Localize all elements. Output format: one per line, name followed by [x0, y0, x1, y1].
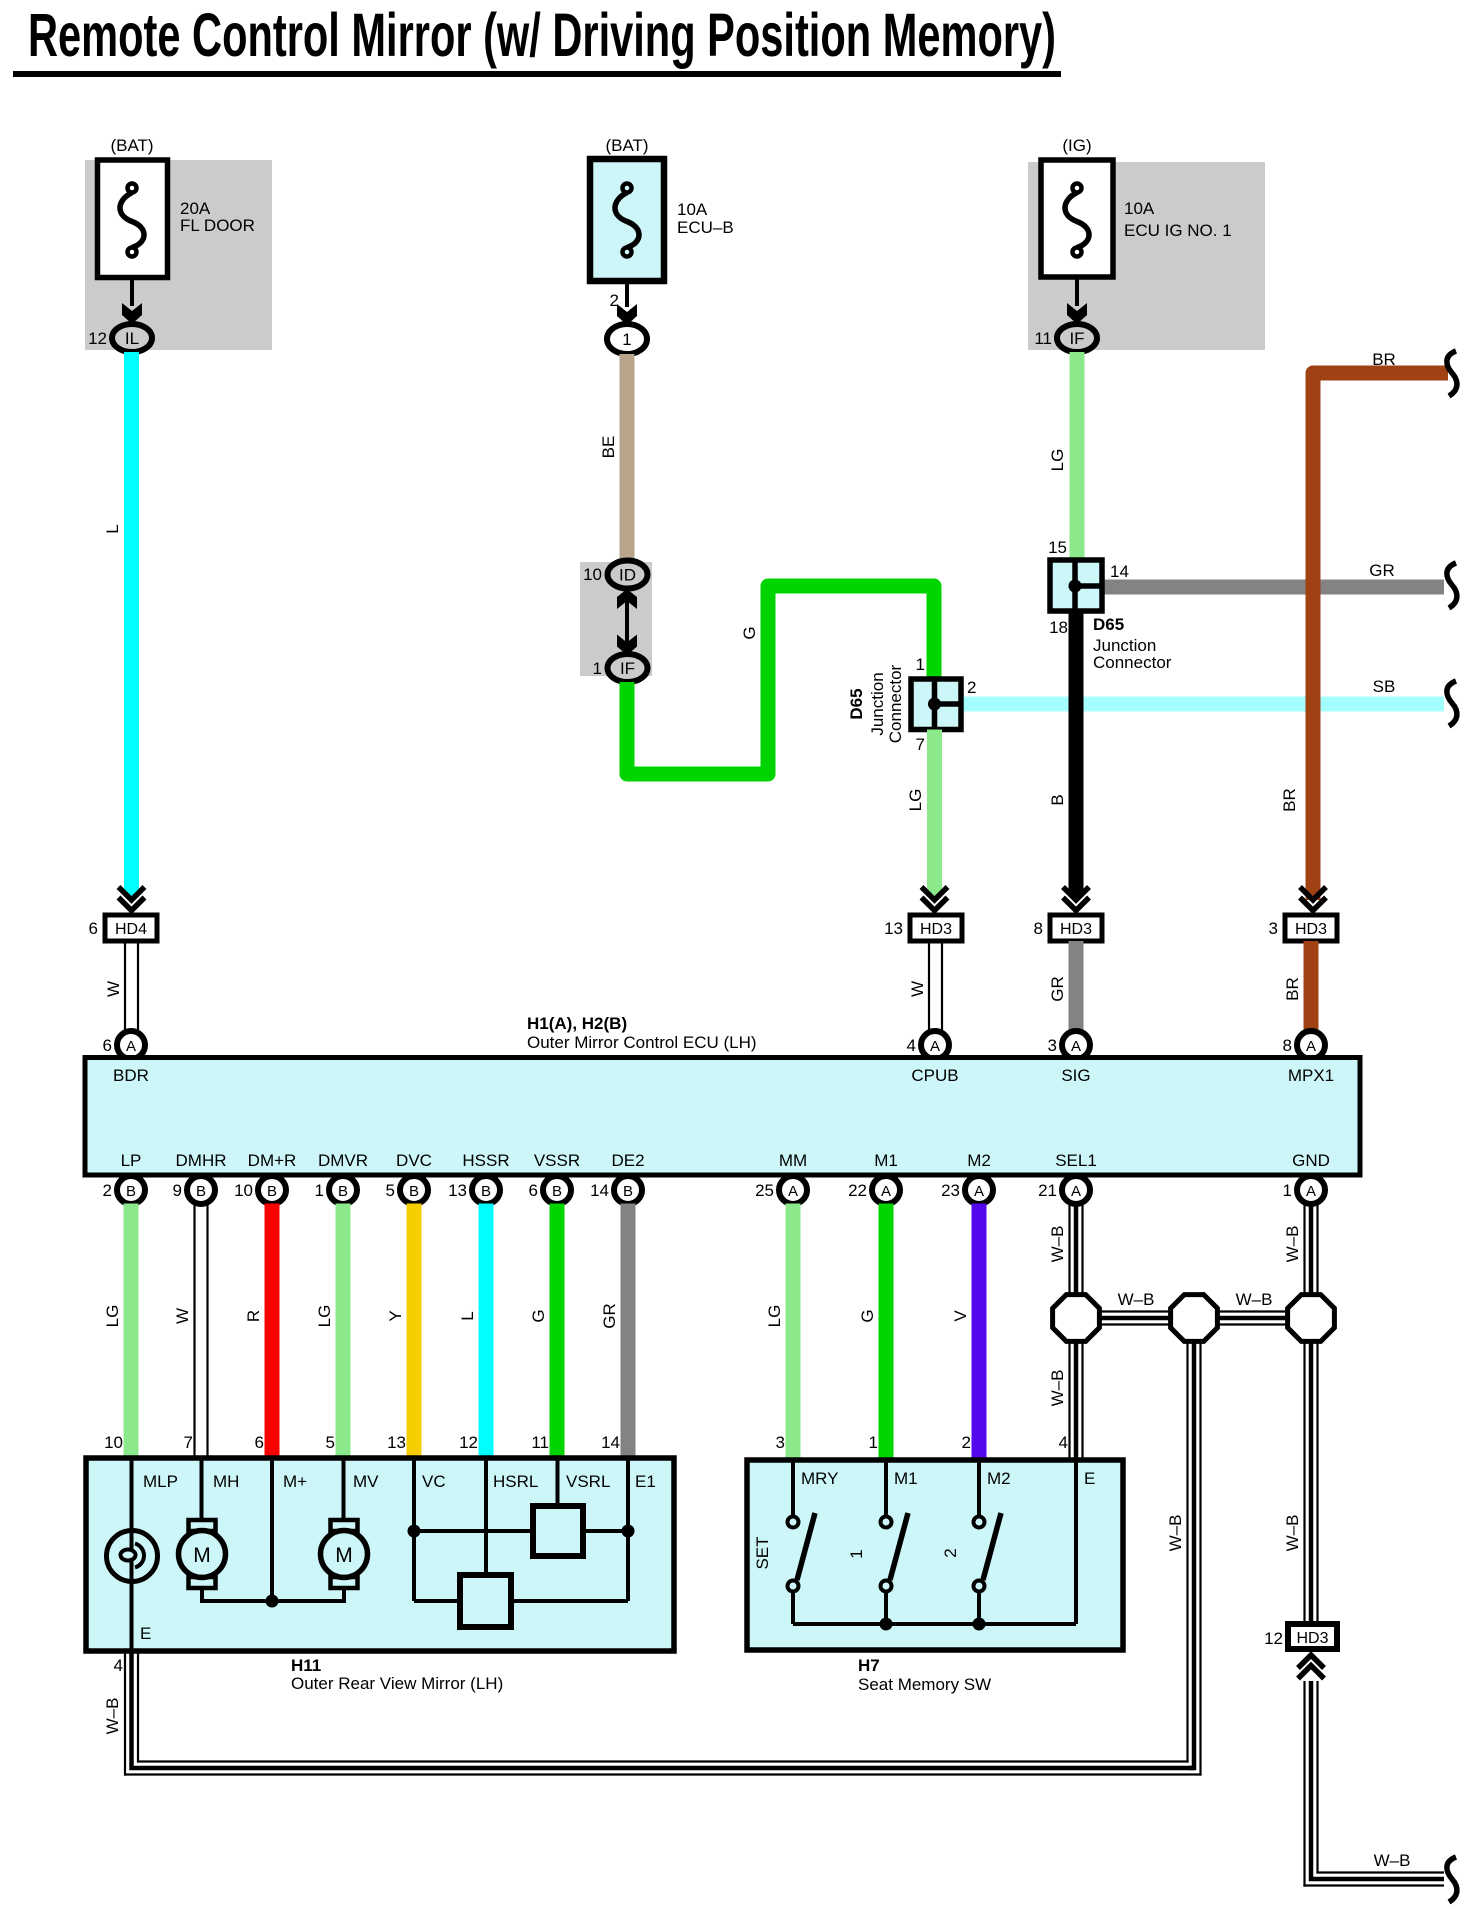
wire VC to resistor2 — [414, 1599, 460, 1603]
svg-text:IF: IF — [1069, 329, 1084, 348]
svg-text:5: 5 — [326, 1433, 335, 1452]
svg-text:FL DOOR: FL DOOR — [180, 216, 255, 235]
svg-text:B: B — [623, 1183, 633, 1200]
wire B from D65 to HD3-8 — [1069, 611, 1084, 894]
H7 pin labels — [801, 1469, 1095, 1488]
svg-text:A: A — [930, 1038, 940, 1055]
wire MH line — [200, 1458, 204, 1520]
fuse 20A FL DOOR — [98, 160, 168, 278]
svg-text:HSRL: HSRL — [493, 1472, 538, 1491]
junction octagon 1 — [1053, 1295, 1100, 1342]
svg-text:Connector: Connector — [1093, 653, 1172, 672]
junction dot M1 — [880, 1618, 893, 1631]
svg-text:SIG: SIG — [1061, 1066, 1090, 1085]
svg-text:MH: MH — [213, 1472, 239, 1491]
connector oval ID — [608, 561, 648, 589]
svg-text:W–B: W–B — [1374, 1851, 1411, 1870]
wire motor2 to bus — [342, 1588, 346, 1601]
svg-text:W: W — [173, 1308, 192, 1324]
svg-text:MPX1: MPX1 — [1288, 1066, 1334, 1085]
svg-text:11: 11 — [1034, 329, 1052, 348]
svg-text:14: 14 — [1110, 562, 1129, 581]
svg-text:SET: SET — [753, 1536, 772, 1569]
svg-text:1: 1 — [869, 1433, 878, 1452]
wire W-B H11 E down (double) — [125, 1651, 138, 1776]
chevron arrow into HD3-8 — [1063, 887, 1089, 911]
svg-text:LG: LG — [906, 789, 925, 812]
svg-text:M2: M2 — [967, 1151, 991, 1170]
svg-text:A: A — [974, 1183, 984, 1200]
pin circle A25 MM — [755, 1176, 807, 1204]
svg-text:25: 25 — [755, 1181, 774, 1200]
svg-text:BR: BR — [1280, 788, 1299, 812]
svg-text:B: B — [552, 1183, 562, 1200]
svg-text:VC: VC — [422, 1472, 446, 1491]
svg-text:8: 8 — [1283, 1036, 1292, 1055]
svg-text:E: E — [140, 1624, 151, 1643]
pin circle A6 — [117, 1031, 145, 1059]
pin circle A1 GND — [1283, 1176, 1325, 1204]
svg-text:13: 13 — [448, 1181, 467, 1200]
svg-text:HD3: HD3 — [920, 921, 952, 938]
svg-text:DE2: DE2 — [611, 1151, 644, 1170]
svg-text:HSSR: HSSR — [462, 1151, 509, 1170]
svg-text:14: 14 — [590, 1181, 609, 1200]
connector HD3 (12) — [1288, 1624, 1337, 1649]
wire fuse1 to IL — [130, 277, 134, 306]
svg-text:8: 8 — [1034, 919, 1043, 938]
svg-text:1: 1 — [847, 1549, 866, 1558]
svg-text:11: 11 — [531, 1433, 549, 1452]
wire W-B SEL1 down to H7 E (double) — [1070, 1204, 1083, 1461]
svg-text:L: L — [103, 524, 122, 533]
svg-text:2: 2 — [103, 1181, 112, 1200]
svg-text:10A: 10A — [1124, 199, 1155, 218]
wire MV line — [342, 1458, 346, 1520]
svg-text:R: R — [244, 1310, 263, 1322]
svg-text:HD3: HD3 — [1295, 921, 1327, 938]
chevron arrow into HD3-3 — [1300, 887, 1326, 911]
junction dot M+ — [266, 1595, 279, 1608]
chevron arrow into HD4 — [119, 887, 145, 911]
connector oval IF — [608, 654, 648, 682]
svg-text:6: 6 — [103, 1036, 112, 1055]
svg-text:4: 4 — [1059, 1433, 1068, 1452]
svg-text:3: 3 — [1269, 919, 1278, 938]
junction dot E1 — [622, 1525, 635, 1538]
arrow into oval 1 — [617, 304, 637, 325]
svg-text:10: 10 — [104, 1433, 123, 1452]
bottom node labels — [121, 1151, 1330, 1170]
wire SB — [961, 697, 1444, 712]
svg-text:A: A — [1306, 1183, 1316, 1200]
wire resistor1 to E1 — [583, 1529, 628, 1533]
wire LG MM to H7 — [786, 1204, 801, 1460]
wire W-B HD3-12 to bottom right (double) — [1303, 1681, 1444, 1887]
pin circle B13 HSSR — [448, 1176, 500, 1204]
svg-text:7: 7 — [184, 1433, 193, 1452]
resistor VSRL (square) — [533, 1506, 583, 1556]
svg-text:BR: BR — [1283, 977, 1302, 1001]
svg-text:DMHR: DMHR — [176, 1151, 227, 1170]
svg-text:B: B — [267, 1183, 277, 1200]
svg-text:6: 6 — [255, 1433, 264, 1452]
svg-text:18: 18 — [1049, 618, 1068, 637]
svg-text:4: 4 — [114, 1656, 123, 1675]
svg-text:(BAT): (BAT) — [605, 136, 648, 155]
wire G (green path) — [627, 586, 934, 774]
svg-text:M1: M1 — [874, 1151, 898, 1170]
wire motor1 to bus — [200, 1588, 204, 1601]
svg-text:Outer Rear View Mirror (LH): Outer Rear View Mirror (LH) — [291, 1674, 503, 1693]
svg-text:GND: GND — [1292, 1151, 1330, 1170]
svg-text:15: 15 — [1048, 538, 1067, 557]
svg-text:12: 12 — [1264, 1629, 1283, 1648]
H11 box — [86, 1458, 674, 1651]
svg-text:BR: BR — [1372, 350, 1396, 369]
svg-text:12: 12 — [88, 329, 107, 348]
svg-text:6: 6 — [529, 1181, 538, 1200]
svg-text:M: M — [335, 1544, 353, 1567]
pin circle A8 — [1297, 1031, 1325, 1059]
svg-text:E: E — [1084, 1469, 1095, 1488]
title underline — [13, 71, 1061, 77]
svg-text:22: 22 — [848, 1181, 867, 1200]
chevron arrow up below HD3-12 — [1298, 1655, 1324, 1679]
connector HD3 (3) — [1285, 915, 1337, 941]
wire HSRL line — [484, 1458, 488, 1575]
svg-text:10A: 10A — [677, 200, 708, 219]
svg-text:M+: M+ — [283, 1472, 307, 1491]
svg-text:M2: M2 — [987, 1469, 1011, 1488]
svg-text:ECU–B: ECU–B — [677, 218, 734, 237]
svg-text:HD3: HD3 — [1296, 1630, 1328, 1647]
wire M+ line — [270, 1458, 274, 1601]
svg-text:E1: E1 — [635, 1472, 656, 1491]
svg-text:14: 14 — [601, 1433, 620, 1452]
svg-text:Y: Y — [386, 1310, 405, 1321]
svg-text:6: 6 — [89, 919, 98, 938]
svg-text:W–B: W–B — [103, 1698, 122, 1735]
connector break squiggle GR — [1447, 563, 1457, 608]
pin circle A3 — [1062, 1031, 1090, 1059]
wire fuse2 down — [625, 281, 629, 307]
connector break squiggle W-B — [1447, 1857, 1457, 1902]
junction octagon 2 — [1171, 1295, 1218, 1342]
connector HD3 (8) — [1050, 915, 1102, 941]
svg-text:DMVR: DMVR — [318, 1151, 368, 1170]
fuse 10A ECU-B — [590, 159, 664, 281]
svg-text:2: 2 — [962, 1433, 971, 1452]
svg-text:MLP: MLP — [143, 1472, 178, 1491]
svg-text:(BAT): (BAT) — [110, 136, 153, 155]
svg-text:G: G — [529, 1309, 548, 1322]
svg-text:IL: IL — [125, 329, 139, 348]
svg-text:B: B — [1048, 794, 1067, 805]
switch 2 — [974, 1460, 1002, 1624]
svg-text:1: 1 — [1283, 1181, 1292, 1200]
svg-text:2: 2 — [967, 678, 976, 697]
wire LG LP to H11 — [124, 1204, 139, 1459]
junction octagon 3 — [1288, 1295, 1335, 1342]
svg-text:W–B: W–B — [1236, 1290, 1273, 1309]
svg-text:MRY: MRY — [801, 1469, 838, 1488]
svg-text:GR: GR — [1048, 976, 1067, 1002]
svg-text:GR: GR — [600, 1303, 619, 1329]
svg-text:B: B — [338, 1183, 348, 1200]
chevron arrow into HD3-13 — [922, 887, 948, 911]
wire L HSSR to H11 — [479, 1204, 494, 1459]
svg-text:B: B — [409, 1183, 419, 1200]
wire E1 line — [626, 1458, 630, 1601]
svg-text:VSSR: VSSR — [534, 1151, 580, 1170]
arrow into IL — [122, 303, 142, 324]
wire R DM+R to H11 — [265, 1204, 280, 1459]
svg-text:L: L — [458, 1311, 477, 1320]
resistor HSRL (square) — [460, 1575, 511, 1627]
svg-text:IF: IF — [620, 659, 635, 678]
double arrow ID-IF — [617, 589, 637, 655]
wire VC-resistor1 horizontal — [414, 1529, 533, 1533]
label D65 Junction Connector (rotated) — [847, 664, 905, 743]
pin circle B9 DMHR — [173, 1176, 215, 1204]
junction connector D65 (left) — [911, 679, 961, 730]
svg-text:1: 1 — [916, 655, 925, 674]
wire LG DMVR to H11 — [336, 1204, 351, 1459]
svg-text:W: W — [908, 981, 927, 997]
svg-text:V: V — [951, 1310, 970, 1322]
svg-text:3: 3 — [776, 1433, 785, 1452]
wire VC line — [412, 1458, 416, 1601]
wire V M2 to H7 — [972, 1204, 987, 1460]
wire W-B bottom run (double) — [124, 1762, 1202, 1775]
connector oval 1 — [607, 324, 647, 354]
svg-text:SB: SB — [1373, 677, 1396, 696]
svg-text:HD3: HD3 — [1060, 921, 1092, 938]
connector HD3 (13) — [910, 915, 962, 941]
H11 pin labels — [143, 1472, 656, 1491]
pin circle A4 — [921, 1031, 949, 1059]
connector break squiggle BR — [1447, 351, 1457, 396]
wire GR to right edge — [1102, 580, 1444, 595]
wire resistor2 to E1 — [511, 1599, 628, 1603]
svg-text:LG: LG — [1048, 449, 1067, 472]
svg-text:A: A — [1071, 1038, 1081, 1055]
wire fuse3 down — [1075, 277, 1079, 306]
svg-text:Outer Mirror Control ECU (LH): Outer Mirror Control ECU (LH) — [527, 1033, 757, 1052]
wire W (double) HD4 to ECU — [125, 941, 138, 1034]
wire G VSSR to H11 — [550, 1204, 565, 1459]
fuse FL DOOR backdrop — [85, 160, 272, 350]
svg-text:W–B: W–B — [1048, 1226, 1067, 1263]
H7 box — [747, 1460, 1123, 1650]
svg-text:Remote Control Mirror (w/ Driv: Remote Control Mirror (w/ Driving Positi… — [28, 1, 1056, 69]
svg-text:HD4: HD4 — [115, 921, 147, 938]
pin circle B5 DVC — [386, 1176, 428, 1204]
fuse ECU IG NO.1 backdrop — [1028, 162, 1265, 350]
svg-text:1: 1 — [593, 659, 602, 678]
svg-text:W–B: W–B — [1118, 1290, 1155, 1309]
svg-text:B: B — [481, 1183, 491, 1200]
wire G M1 to H7 — [879, 1204, 894, 1460]
connector break squiggle SB — [1447, 681, 1457, 726]
wire BR top right — [1313, 373, 1448, 900]
svg-text:MV: MV — [353, 1472, 379, 1491]
wire LG from D65-7 to HD3-13 — [927, 730, 942, 895]
svg-text:VSRL: VSRL — [566, 1472, 610, 1491]
svg-text:A: A — [1306, 1038, 1316, 1055]
svg-text:A: A — [1071, 1183, 1081, 1200]
switch 1 — [881, 1460, 909, 1624]
svg-text:ID: ID — [619, 566, 636, 585]
wire GR HD3-8 to ECU — [1069, 941, 1084, 1032]
connector oval IL — [112, 324, 152, 352]
svg-text:Seat Memory SW: Seat Memory SW — [858, 1675, 991, 1694]
svg-text:CPUB: CPUB — [911, 1066, 958, 1085]
junction dot M2 — [973, 1618, 986, 1631]
wire E line H7 — [1074, 1460, 1078, 1624]
svg-text:M1: M1 — [894, 1469, 918, 1488]
wire W-B middle octagon down (double) — [1188, 1318, 1201, 1776]
svg-text:Connector: Connector — [886, 664, 905, 743]
svg-text:13: 13 — [884, 919, 903, 938]
connector oval IF (11) — [1057, 324, 1097, 352]
wire BE — [620, 354, 635, 562]
svg-text:23: 23 — [941, 1181, 960, 1200]
wire Y DVC to H11 — [407, 1204, 422, 1459]
svg-text:W–B: W–B — [1166, 1515, 1185, 1552]
svg-text:1: 1 — [622, 330, 631, 349]
svg-text:13: 13 — [387, 1433, 406, 1452]
svg-text:3: 3 — [1048, 1036, 1057, 1055]
svg-text:Junction: Junction — [868, 672, 887, 735]
svg-text:DVC: DVC — [396, 1151, 432, 1170]
svg-text:BDR: BDR — [113, 1066, 149, 1085]
svg-text:G: G — [740, 626, 759, 639]
motor M (vertical) — [321, 1520, 368, 1588]
svg-text:LP: LP — [121, 1151, 142, 1170]
svg-text:ECU IG NO. 1: ECU IG NO. 1 — [1124, 221, 1232, 240]
svg-text:A: A — [881, 1183, 891, 1200]
svg-text:LG: LG — [765, 1305, 784, 1328]
svg-text:1: 1 — [315, 1181, 324, 1200]
wire W-B GND down to HD3-12 (double) — [1305, 1204, 1318, 1626]
svg-text:G: G — [858, 1309, 877, 1322]
motor M (horizontal) — [179, 1520, 226, 1588]
wire LG fuse3 to D65 — [1070, 352, 1085, 560]
svg-text:21: 21 — [1038, 1181, 1057, 1200]
ECU Outer Mirror Control ECU box — [85, 1058, 1360, 1176]
arrow into IF — [1067, 303, 1087, 324]
svg-text:5: 5 — [386, 1181, 395, 1200]
wire MLP line — [130, 1458, 134, 1651]
svg-text:M: M — [193, 1544, 211, 1567]
svg-text:10: 10 — [234, 1181, 253, 1200]
pin circle A23 M2 — [941, 1176, 993, 1204]
svg-text:W–B: W–B — [1048, 1370, 1067, 1407]
wire switch bus — [793, 1622, 1076, 1626]
pin circle A22 M1 — [848, 1176, 900, 1204]
wire W (double) HD3-13 to ECU — [929, 941, 942, 1034]
pin circle A21 SEL1 — [1038, 1176, 1090, 1204]
svg-text:B: B — [196, 1183, 206, 1200]
svg-text:D65: D65 — [847, 688, 866, 719]
svg-text:BE: BE — [599, 436, 618, 459]
fuse 10A ECU IG NO. 1 — [1041, 160, 1113, 277]
wire W-B octagon links (double) — [1076, 1312, 1311, 1325]
wire BR HD3-3 to ECU — [1304, 941, 1319, 1032]
svg-text:DM+R: DM+R — [248, 1151, 297, 1170]
svg-text:GR: GR — [1369, 561, 1395, 580]
switch SET — [788, 1460, 816, 1624]
svg-text:B: B — [126, 1183, 136, 1200]
wire W DMHR to H11 (double) — [195, 1204, 208, 1459]
svg-text:10: 10 — [583, 565, 602, 584]
svg-text:MM: MM — [779, 1151, 807, 1170]
connector HD4 — [105, 915, 157, 941]
svg-text:4: 4 — [907, 1036, 916, 1055]
svg-text:H7: H7 — [858, 1656, 880, 1675]
wire bus motor1-motor2 — [200, 1599, 346, 1603]
svg-text:W–B: W–B — [1283, 1226, 1302, 1263]
svg-text:W: W — [104, 981, 123, 997]
svg-text:H1(A), H2(B): H1(A), H2(B) — [527, 1014, 627, 1033]
gray backdrop ID/IF — [580, 562, 652, 676]
pin circle B1 DMVR — [315, 1176, 357, 1204]
pin circle B10 DM+R — [234, 1176, 286, 1204]
wire L cyan — [124, 352, 139, 895]
svg-text:H11: H11 — [291, 1656, 321, 1675]
junction connector D65 (right) — [1050, 560, 1102, 611]
svg-text:12: 12 — [459, 1433, 478, 1452]
junction dot VC — [408, 1525, 421, 1538]
pin circle B6 VSSR — [529, 1176, 571, 1204]
label D65 Junction Connector — [1093, 615, 1172, 672]
svg-text:LG: LG — [103, 1305, 122, 1328]
wire VSRL line — [556, 1458, 560, 1506]
svg-text:9: 9 — [173, 1181, 182, 1200]
svg-text:2: 2 — [941, 1548, 960, 1557]
pin circle B14 DE2 — [590, 1176, 642, 1204]
svg-text:SEL1: SEL1 — [1055, 1151, 1097, 1170]
wire GR DE2 to H11 — [621, 1204, 636, 1459]
svg-text:LG: LG — [315, 1305, 334, 1328]
svg-text:W–B: W–B — [1283, 1515, 1302, 1552]
svg-text:D65: D65 — [1093, 615, 1124, 634]
svg-text:7: 7 — [916, 735, 925, 754]
svg-text:(IG): (IG) — [1062, 136, 1091, 155]
pin circle B2 LP — [103, 1176, 145, 1204]
svg-text:A: A — [126, 1038, 136, 1055]
svg-text:A: A — [788, 1183, 798, 1200]
lamp — [107, 1530, 158, 1582]
